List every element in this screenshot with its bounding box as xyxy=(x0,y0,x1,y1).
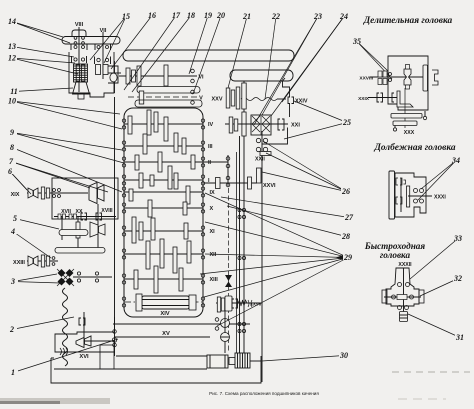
cap bar lower xyxy=(135,100,202,107)
svg-text:XXIX: XXIX xyxy=(358,96,370,102)
gears VII lower xyxy=(97,58,100,61)
vertical x225 lower xyxy=(224,311,226,353)
callout 27 xyxy=(221,197,349,218)
svg-text:XXXII: XXXII xyxy=(398,262,412,268)
shaft XXXI xyxy=(408,195,432,197)
cross joint xyxy=(58,269,66,277)
slot gears xyxy=(414,189,418,193)
svg-text:32: 32 xyxy=(453,274,462,283)
flange 2 xyxy=(393,121,417,126)
svg-text:XIV: XIV xyxy=(160,311,169,317)
gear blocks XXVI xyxy=(216,178,221,189)
bearings III xyxy=(122,141,125,144)
gears VI right xyxy=(191,69,195,73)
shaft I xyxy=(124,179,203,181)
svg-text:XV: XV xyxy=(162,331,170,337)
spindle axis xyxy=(404,88,406,128)
svg-text:Делительная головка: Делительная головка xyxy=(363,16,453,26)
bearings XIV xyxy=(122,297,125,300)
slot clutch bot xyxy=(396,197,402,204)
callout 28 xyxy=(227,206,346,237)
gears XXI left xyxy=(229,117,233,133)
svg-text:5: 5 xyxy=(13,214,17,223)
svg-text:6: 6 xyxy=(8,167,12,176)
gear block on VIII xyxy=(74,64,88,82)
gears XXII xyxy=(256,138,260,142)
callout 3 xyxy=(13,274,57,282)
left block xyxy=(100,345,114,369)
svg-text:31: 31 xyxy=(455,333,464,342)
callout 8 xyxy=(12,148,122,193)
svg-text:10: 10 xyxy=(8,97,16,106)
vertical x240 xyxy=(239,136,241,353)
bearings XV xyxy=(215,318,219,322)
svg-text:24: 24 xyxy=(339,12,348,21)
worm plate xyxy=(397,91,413,107)
hs gear bot xyxy=(398,306,402,310)
gears I xyxy=(139,173,143,188)
svg-text:28: 28 xyxy=(341,232,350,241)
gears XXVII xyxy=(217,297,220,312)
slot mid bar xyxy=(407,186,410,207)
gears X xyxy=(148,200,152,217)
svg-text:головка: головка xyxy=(380,250,411,260)
svg-text:29: 29 xyxy=(343,253,352,262)
clutch XXIX xyxy=(377,93,383,102)
gears V xyxy=(139,91,144,104)
callout 26 xyxy=(263,141,346,192)
tail bar xyxy=(423,65,428,91)
clutch XVI xyxy=(79,318,85,325)
svg-text:XXIV: XXIV xyxy=(295,99,308,105)
callout 13 xyxy=(12,47,74,58)
bearings II xyxy=(122,157,125,160)
shaft VII vertical xyxy=(102,32,104,79)
vertical x262 xyxy=(261,131,263,382)
shaft V dashed xyxy=(128,96,197,98)
shaft II xyxy=(124,161,203,163)
gears x228 xyxy=(226,157,230,161)
svg-text:XXVIII: XXVIII xyxy=(359,76,373,82)
gears x114 xyxy=(113,330,117,334)
callout 9 xyxy=(12,133,122,151)
input pulley left xyxy=(110,73,117,82)
gears XIX xyxy=(41,187,44,199)
shaft XIX xyxy=(27,192,88,194)
svg-text:15: 15 xyxy=(122,12,130,21)
rack cylinder XIV xyxy=(142,296,189,309)
shaft XI xyxy=(124,230,203,232)
callout 21 xyxy=(228,17,247,89)
shaft III xyxy=(124,145,203,147)
callout 23 xyxy=(262,17,318,116)
callout 30 xyxy=(262,356,344,362)
svg-text:22: 22 xyxy=(271,12,280,21)
coupling xyxy=(229,358,235,365)
right outline steps xyxy=(262,78,290,144)
hs shaft horiz xyxy=(384,296,421,298)
head housing outline xyxy=(69,52,114,97)
slotting body xyxy=(395,173,426,217)
svg-text:VII: VII xyxy=(100,28,107,34)
hs ear left xyxy=(382,290,387,303)
callout 20 xyxy=(193,16,221,95)
gears II xyxy=(135,155,139,170)
axis x228 dashed xyxy=(228,188,230,352)
svg-text:27: 27 xyxy=(344,213,354,222)
spring XXVII xyxy=(238,300,247,306)
svg-text:XVIII: XVIII xyxy=(101,208,113,214)
teardrop right xyxy=(423,116,426,119)
callout 35 xyxy=(357,42,388,72)
callout 6 xyxy=(10,172,27,191)
wavy shaft XXV xyxy=(241,98,277,101)
callout 17 xyxy=(124,16,176,91)
top long bar xyxy=(123,50,294,61)
callout 12 xyxy=(12,58,75,63)
dividing head outline xyxy=(388,56,428,110)
base top line xyxy=(116,355,207,357)
shaft XXIII xyxy=(27,260,58,262)
callout 15 xyxy=(90,17,126,61)
link to main box xyxy=(108,72,121,74)
callout 18 xyxy=(132,16,191,93)
gearbox XVII outline xyxy=(52,178,118,219)
shaft XVII vertical xyxy=(61,217,63,240)
generator block xyxy=(235,353,250,368)
clutch XXI right xyxy=(278,119,284,130)
gears XXVIII xyxy=(378,71,382,77)
callout 31 xyxy=(408,314,460,338)
svg-text:Долбежная головка: Долбежная головка xyxy=(373,142,455,153)
gears VI left xyxy=(126,68,130,84)
bearings IX xyxy=(122,187,125,190)
gears below bar VIII xyxy=(74,46,77,49)
bearings XIII xyxy=(122,274,125,277)
shaft XIII xyxy=(124,278,203,280)
gears on bar VIII xyxy=(74,37,77,40)
svg-text:20: 20 xyxy=(216,11,225,20)
svg-text:19: 19 xyxy=(204,11,212,20)
gear VI mid bar xyxy=(164,65,168,86)
svg-text:21: 21 xyxy=(242,12,251,21)
screw gears c xyxy=(238,322,241,325)
svg-text:X: X xyxy=(210,206,214,212)
flange XXII xyxy=(260,152,271,156)
bearings IV xyxy=(122,119,125,122)
svg-text:16: 16 xyxy=(148,11,156,20)
svg-text:13: 13 xyxy=(8,42,16,51)
slot clutch top xyxy=(396,178,406,185)
gears XXIII xyxy=(41,255,44,267)
shaft from cross xyxy=(73,276,112,278)
chain end marks xyxy=(60,348,68,355)
clutch XXVII xyxy=(232,299,238,308)
gears IX xyxy=(129,189,133,201)
svg-text:4: 4 xyxy=(10,227,15,236)
bevel pair XIX-XVIII xyxy=(89,183,97,204)
svg-text:1: 1 xyxy=(11,368,15,377)
svg-text:XXX: XXX xyxy=(404,130,415,136)
hs ear right xyxy=(419,290,424,303)
shaft VI xyxy=(119,75,197,77)
base outline xyxy=(51,356,261,383)
gearbox body xyxy=(124,108,203,317)
svg-text:II: II xyxy=(208,160,212,166)
shaft XXIX xyxy=(368,97,400,99)
callout 5 xyxy=(15,219,59,230)
svg-text:14: 14 xyxy=(8,17,16,26)
mid bar xyxy=(59,230,88,236)
bearings XII xyxy=(122,249,125,252)
callout 7 xyxy=(11,162,90,189)
svg-text:XXXI: XXXI xyxy=(434,195,446,201)
gears XIII xyxy=(134,270,138,289)
shaft XXI xyxy=(225,123,288,125)
gears XI xyxy=(132,217,136,243)
hs gear top xyxy=(398,283,402,287)
wheel 1 xyxy=(221,319,230,328)
shaft IX xyxy=(124,191,203,193)
shaft II ext xyxy=(203,161,228,163)
motor block xyxy=(207,355,228,368)
svg-text:34: 34 xyxy=(451,156,460,165)
svg-text:XXI: XXI xyxy=(291,123,300,129)
bevel XIX xyxy=(28,188,33,198)
bevel XVI xyxy=(76,338,84,348)
callout 11 xyxy=(14,88,73,92)
svg-text:26: 26 xyxy=(341,187,350,196)
svg-text:VIII: VIII xyxy=(75,22,84,28)
callout 32 xyxy=(420,279,458,297)
shaft XIV dashed xyxy=(124,301,203,303)
callout 29 xyxy=(205,193,348,258)
shaft XV xyxy=(113,323,250,325)
svg-text:2: 2 xyxy=(9,325,14,334)
shaft XXVI xyxy=(204,182,257,184)
bottom left step xyxy=(55,332,114,352)
callout 16 xyxy=(111,16,152,70)
shaft to corner xyxy=(250,360,261,362)
clutch row xyxy=(54,216,116,218)
gear bar XXVI xyxy=(257,168,262,183)
chain wavy line xyxy=(63,288,68,366)
shaft X xyxy=(124,207,203,209)
svg-text:23: 23 xyxy=(313,12,322,21)
spindle xyxy=(404,69,411,85)
svg-text:XIX: XIX xyxy=(11,192,20,198)
svg-text:18: 18 xyxy=(187,11,195,20)
svg-text:9: 9 xyxy=(10,128,14,137)
gear v244 lower xyxy=(242,112,246,136)
shaft XII xyxy=(124,253,203,255)
callout 19 xyxy=(189,16,208,75)
callout 24 xyxy=(271,17,344,117)
left column outline xyxy=(114,61,116,93)
gears VII top xyxy=(97,46,100,49)
gears III xyxy=(143,134,147,154)
gear rects VII xyxy=(96,65,101,75)
callout 2 xyxy=(12,317,74,330)
svg-text:III: III xyxy=(208,144,213,150)
cyl XXVII xyxy=(225,296,232,311)
svg-text:XII: XII xyxy=(210,252,217,258)
callout 22 xyxy=(265,17,276,100)
flange 1 xyxy=(391,114,422,119)
svg-text:17: 17 xyxy=(172,11,181,20)
cap bar upper xyxy=(137,87,200,94)
head top bar xyxy=(62,37,120,45)
shaft VIII vertical xyxy=(78,27,80,92)
callout 34 xyxy=(421,161,456,190)
callout 10 xyxy=(12,101,120,114)
svg-text:35: 35 xyxy=(352,37,361,46)
hs shaft vert xyxy=(403,268,405,313)
gears XXV xyxy=(226,88,230,108)
svg-text:Рис. 7. Схема расположения под: Рис. 7. Схема расположения подшипников к… xyxy=(209,391,319,396)
shaft XVI xyxy=(84,340,114,342)
svg-text:XI: XI xyxy=(210,229,216,235)
spindle cone VIII xyxy=(73,82,90,94)
gears XII xyxy=(146,241,150,269)
hs gear mid xyxy=(392,295,396,299)
clutch XXIV xyxy=(288,97,294,104)
callout 14 xyxy=(12,22,63,38)
callout 33 xyxy=(410,239,458,280)
drop xyxy=(393,128,396,131)
bevel lower xyxy=(90,222,98,237)
svg-text:11: 11 xyxy=(10,87,18,96)
shaft XXVIII xyxy=(370,76,427,78)
hs chuck xyxy=(400,312,408,322)
bearings I xyxy=(122,175,125,178)
gears IV xyxy=(128,116,132,134)
bottom bar xyxy=(55,248,105,254)
tail bracket xyxy=(432,70,438,85)
bearings X xyxy=(122,203,125,206)
shaft IV xyxy=(124,123,203,125)
callout 4 xyxy=(13,232,51,259)
svg-text:25: 25 xyxy=(342,118,351,127)
reverse box XXI xyxy=(251,115,271,135)
callout 25 xyxy=(294,101,347,123)
svg-text:XXIII: XXIII xyxy=(13,260,25,266)
svg-text:IV: IV xyxy=(208,122,214,128)
wheel 2 xyxy=(221,333,230,342)
svg-text:8: 8 xyxy=(10,143,14,152)
slot shaft vert xyxy=(400,178,402,212)
svg-text:XVI: XVI xyxy=(79,354,89,360)
vertical shaft x244 xyxy=(243,81,245,137)
hs body xyxy=(386,268,419,306)
svg-text:3: 3 xyxy=(10,277,15,286)
shaft XX vertical xyxy=(77,217,79,252)
sym XXVII xyxy=(248,300,252,307)
screw gears a xyxy=(238,208,241,211)
shaft XVIII vertical xyxy=(97,204,99,252)
gear v244 upper xyxy=(242,83,246,109)
shaft XXVII xyxy=(216,302,262,304)
svg-text:XXV: XXV xyxy=(211,97,222,103)
bevel pair x228 xyxy=(225,275,232,281)
callout 1 xyxy=(13,339,118,373)
gears VIII mid xyxy=(74,58,77,61)
svg-text:30: 30 xyxy=(339,351,348,360)
screw gears b xyxy=(238,256,241,259)
top right bar xyxy=(230,70,293,81)
svg-text:XIII: XIII xyxy=(210,277,219,283)
svg-text:XXVI: XXVI xyxy=(263,183,276,189)
slotting left plate xyxy=(389,171,395,219)
svg-text:33: 33 xyxy=(453,234,462,243)
vertical screw 3 xyxy=(236,152,238,353)
bearings XI xyxy=(122,226,125,229)
svg-text:XXII: XXII xyxy=(255,157,265,163)
bevel XXIII xyxy=(28,256,33,266)
svg-text:12: 12 xyxy=(8,54,16,63)
